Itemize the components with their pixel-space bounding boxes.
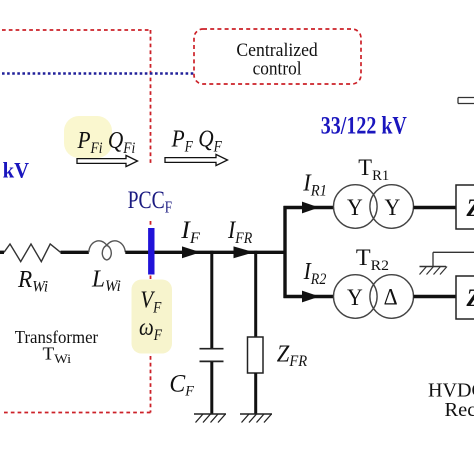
junction vertical bus to rectifier branches (283, 206, 286, 298)
label C_F (169, 370, 195, 400)
label I_FR (227, 217, 252, 248)
svg-text:Z: Z (466, 284, 474, 312)
control bus red dashed: vertical upper (150, 30, 152, 164)
label kV (blue) (3, 158, 30, 183)
yellow V_F / omega_F box (132, 280, 173, 354)
svg-text:Y: Y (347, 194, 363, 220)
wire: inductor to bus (125, 251, 286, 254)
current arrow I_F (182, 246, 201, 258)
power flow hollow arrow P_F (165, 154, 228, 165)
svg-text:Z: Z (466, 194, 474, 222)
label T_Wi (43, 344, 72, 366)
transformer T_R1 circles (334, 185, 378, 229)
wire capacitor to ground (210, 362, 213, 414)
control bus red dashed: vertical short above bus bar (150, 221, 152, 228)
control bus red dashed: vertical short below bus bar (150, 276, 152, 280)
svg-text:33/122 kV: 33/122 kV (321, 111, 408, 139)
svg-text:HVDC: HVDC (428, 380, 474, 402)
label T_R1 (358, 155, 389, 184)
label T_R2 (356, 246, 389, 274)
current arrow I_R2 (302, 291, 320, 303)
svg-text:Transformer: Transformer (15, 328, 99, 347)
branch R2 wire (284, 295, 335, 298)
label P_F Q_F (171, 125, 222, 156)
svg-text:control: control (253, 58, 302, 79)
yellow highlight blob behind P_Fi (64, 116, 112, 158)
control bus red dashed: vertical lower (150, 356, 152, 413)
label 33/122 kV (blue) (321, 111, 408, 139)
ground under C_F (194, 413, 226, 415)
transformer T_R2 circles (334, 275, 378, 319)
wire T_R1 to Z box (414, 206, 457, 209)
label R_Wi (17, 267, 48, 296)
inductor L_Wi (89, 241, 126, 260)
label L_Wi (91, 266, 121, 295)
svg-text:Y: Y (385, 194, 401, 220)
ground wire near T_R2 (433, 251, 474, 253)
wire Z_FR to ground (254, 373, 257, 414)
label I_R1 (302, 170, 327, 200)
wire: left stub (0, 251, 4, 254)
control bus red dashed: top horizontal (2, 29, 151, 31)
svg-text:Y: Y (347, 284, 363, 310)
control bus red dashed: bottom horizontal (3, 412, 151, 414)
impedance Z box (rectifier 1) (456, 185, 474, 229)
label omega_F (139, 313, 162, 344)
svg-text:Δ: Δ (384, 284, 398, 310)
power flow hollow arrow P_Fi (77, 155, 138, 166)
label Z_FR (277, 341, 307, 370)
label I_F (180, 216, 201, 247)
ground symbol near T_R2 (420, 266, 447, 268)
label I_R2 (303, 258, 327, 288)
label P_Fi Q_Fi (77, 127, 136, 158)
PCC_F bus bar (blue) (148, 228, 154, 275)
branch R1 wire (284, 206, 334, 209)
current arrow I_FR (234, 246, 255, 258)
hollow arrow stub top right (458, 98, 474, 104)
label HVDC (428, 380, 474, 402)
impedance Z box (rectifier 2) (456, 276, 474, 319)
node wire down to capacitor C_F (210, 251, 213, 348)
capacitor C_F plates (200, 349, 224, 362)
ground under Z_FR (240, 413, 272, 415)
wire T_R2 to Z box (414, 295, 457, 298)
current arrow I_R1 (302, 202, 319, 214)
svg-text:Rectifier: Rectifier (445, 399, 474, 420)
wire: resistor to inductor (61, 251, 89, 254)
impedance Z_FR box (248, 337, 264, 373)
centralized control box (194, 29, 361, 84)
label Rectifier (445, 399, 474, 420)
resistor R_Wi (4, 244, 61, 262)
label Transformer (15, 328, 99, 347)
label V_F (140, 286, 161, 317)
blue dotted measurement line (2, 72, 194, 74)
node wire down to Z_FR (254, 251, 257, 337)
label PCC_F (navy) (128, 185, 172, 216)
svg-text:kV: kV (3, 158, 30, 183)
